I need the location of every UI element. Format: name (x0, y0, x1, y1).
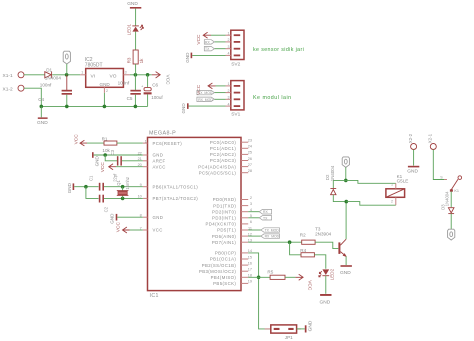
net flag TX to sensor (204, 47, 214, 52)
supply VCC arrow SV1 (196, 83, 216, 95)
svg-text:1: 1 (228, 82, 230, 86)
wire SV2 pin4 to GND (192, 54, 225, 56)
svg-text:1N4004: 1N4004 (45, 76, 62, 81)
junction R5 tap (257, 276, 261, 280)
capacitor C1 22pf (89, 173, 118, 191)
microcontroller IC1 MEGA8-P body (148, 131, 242, 300)
node VIN junction (65, 73, 69, 77)
svg-text:PD0(RXD): PD0(RXD) (213, 197, 237, 202)
svg-text:PD6(AIN0): PD6(AIN0) (212, 234, 237, 239)
pin 14 PB0(ICP) right (215, 249, 252, 255)
svg-text:1k: 1k (139, 58, 144, 64)
svg-text:AVCC: AVCC (153, 164, 166, 169)
wire X2-1 to switch pole (433, 150, 446, 180)
pin 2 SV2 (226, 38, 241, 43)
svg-text:X1-1: X1-1 (3, 73, 13, 79)
pin 19 PB5(SCK) right (213, 280, 252, 286)
diode D2 1N4004 (325, 165, 336, 194)
svg-text:VCC: VCC (165, 75, 171, 86)
svg-text:PB0(ICP): PB0(ICP) (215, 251, 237, 256)
svg-text:3: 3 (228, 45, 230, 49)
svg-text:GND: GND (181, 103, 186, 114)
connector X2-2 (408, 133, 417, 149)
pin 25 PC2(ADC2) right (210, 151, 252, 157)
pin 27 PC4(ADC4/SDA) right (198, 163, 252, 169)
wire X1-1 to D1 (24, 74, 45, 76)
wire VCC to R1 (87, 142, 104, 144)
svg-text:1: 1 (145, 139, 147, 143)
svg-text:GND: GND (100, 82, 111, 87)
svg-text:2: 2 (391, 199, 393, 203)
svg-text:PC3(ADC3): PC3(ADC3) (210, 158, 236, 163)
wire VCC to SV2 pin1 (211, 34, 226, 36)
svg-text:PB4(MISO): PB4(MISO) (211, 275, 237, 280)
pin 15 PB1(OC1A) right (210, 255, 252, 261)
svg-text:GND: GND (185, 52, 190, 63)
pin 2 PD0(RXD) right (213, 196, 252, 202)
junction IC2 gnd-rail (103, 105, 107, 109)
jumper JP1 (271, 325, 297, 340)
svg-text:G5LE: G5LE (397, 179, 409, 184)
junction crystal-xtal1 (121, 185, 125, 189)
pin 4 PD2(INT0) right (212, 208, 252, 214)
svg-text:1: 1 (81, 71, 83, 75)
svg-text:1N4004: 1N4004 (330, 165, 335, 181)
svg-text:PD5(T1): PD5(T1) (217, 228, 236, 233)
svg-text:GND: GND (110, 213, 115, 224)
svg-text:PC1(ADC1): PC1(ADC1) (210, 146, 236, 151)
svg-text:4: 4 (228, 52, 230, 56)
wire wirepad down to node A (345, 167, 347, 180)
junction xtal gnd (84, 185, 88, 189)
wire node A to D2 cathode (333, 180, 346, 188)
svg-text:C3: C3 (110, 149, 115, 155)
pin 22 GND left (138, 151, 164, 157)
svg-text:TX_MOD: TX_MOD (265, 228, 280, 232)
pin 1 SV2 (226, 31, 241, 36)
svg-text:Ke modul lain: Ke modul lain (253, 95, 292, 101)
connector X1-1 (3, 72, 25, 79)
wire X2-2 to GND (413, 150, 415, 166)
resistor R2 (300, 232, 315, 244)
pin 2 relay coil (391, 197, 396, 205)
junction VO-R3-C5 (134, 73, 138, 77)
capacitor C5 100nf (118, 75, 141, 107)
ground GND at JP1 rotated (305, 320, 314, 332)
junction C4-rail (65, 105, 69, 109)
svg-text:27: 27 (248, 163, 252, 167)
wire switch to D3 (450, 192, 452, 208)
svg-text:R2: R2 (300, 232, 306, 237)
relay K1 contact blade (450, 179, 459, 193)
wire SV1 pin2 to flag (214, 92, 225, 94)
svg-text:GND: GND (308, 320, 314, 331)
supply VCC arrow for reset pullup (74, 134, 88, 146)
svg-text:GND: GND (340, 270, 351, 276)
svg-text:2: 2 (228, 89, 230, 93)
svg-text:X2-1: X2-1 (428, 133, 433, 143)
wire R4 to LED2 (314, 255, 325, 269)
SECTION: mcu-right (248, 202, 352, 340)
connector X1-2 (3, 85, 25, 92)
svg-text:PB5(SCK): PB5(SCK) (213, 281, 236, 286)
svg-text:VCC: VCC (153, 228, 163, 233)
SECTION: mcu (138, 131, 252, 300)
svg-text:C2: C2 (104, 206, 109, 212)
pin 3 SV1 (226, 96, 241, 101)
svg-text:C4: C4 (38, 97, 44, 102)
wire X1-2 down to ground rail (24, 88, 41, 106)
capacitor C4 (38, 75, 72, 107)
wirepad JP input (63, 51, 70, 64)
SECTION: relay (325, 133, 462, 240)
pin 2 SV1 (226, 89, 241, 94)
pin 2 IC2 ground stub (104, 87, 108, 106)
svg-text:LED1: LED1 (126, 23, 131, 35)
crystal Q1 16MHz (116, 177, 130, 198)
wire VCC to pin7 (130, 229, 143, 231)
svg-text:X1-2: X1-2 (3, 86, 13, 92)
wire C2 to pin10 XTAL2 (104, 197, 143, 199)
wire junction down to C3 (105, 155, 117, 161)
net flag TX_MOD to module (197, 90, 215, 95)
svg-text:PB6(XTAL1/TOSC1): PB6(XTAL1/TOSC1) (153, 184, 199, 189)
svg-text:TX: TX (263, 216, 268, 220)
wire junction down to R4 (290, 242, 301, 255)
wire SV2 pin3 to flag (214, 48, 225, 50)
svg-text:2: 2 (228, 38, 230, 42)
svg-text:25: 25 (248, 151, 252, 155)
wire R2 to T3 base (315, 242, 338, 248)
svg-text:GND: GND (153, 215, 164, 220)
wire D2 anode to node B (333, 195, 346, 202)
svg-text:GND: GND (407, 169, 418, 175)
svg-text:RX_MOD: RX_MOD (198, 98, 213, 102)
svg-text:26: 26 (248, 157, 252, 161)
pin 10 PB7(XTAL2/TOSC2) left (138, 195, 199, 201)
svg-text:R4: R4 (300, 248, 306, 253)
resistor R1 10k (102, 137, 117, 154)
capacitor C3 (110, 149, 122, 165)
svg-text:RX_MOD: RX_MOD (265, 235, 280, 239)
svg-text:VCC: VCC (196, 34, 202, 45)
svg-text:AREF: AREF (153, 159, 166, 164)
svg-text:2N3904: 2N3904 (315, 231, 332, 236)
junction rail-left (40, 105, 44, 109)
wirepad relay supply (342, 157, 349, 168)
pin 26 PC3(ADC3) right (210, 157, 252, 163)
svg-text:100nf: 100nf (118, 81, 130, 86)
svg-text:GND: GND (153, 153, 164, 158)
pin 3 IC2 (123, 71, 129, 75)
svg-text:1: 1 (228, 31, 230, 35)
wire VCC arrow to pin20 AVCC (116, 166, 143, 168)
ground GND at pin22 rotated (92, 152, 99, 166)
svg-text:19: 19 (248, 280, 252, 284)
wire C3 to pin21 AREF (122, 160, 143, 162)
wire R5 to VCC (285, 276, 295, 278)
supply VCC arrow SV2 (196, 32, 211, 44)
pin 23 PC0(ADC0) right (210, 139, 252, 145)
svg-text:PD4(XCK/T0): PD4(XCK/T0) (206, 222, 237, 227)
pin 20 AVCC left (138, 163, 166, 169)
net flag RX_MOD on PD6 (261, 234, 280, 239)
svg-text:PC0(ADC0): PC0(ADC0) (210, 140, 236, 145)
svg-text:VCC: VCC (74, 134, 80, 145)
svg-text:C6: C6 (152, 83, 158, 88)
svg-text:R3: R3 (127, 57, 132, 63)
ground GND at pin8 rotated (110, 213, 118, 224)
svg-text:100uf: 100uf (151, 95, 163, 100)
pin 4 SV2 (226, 52, 241, 57)
wire pin4 to flag (248, 211, 259, 213)
pin 16 PB2(SS/OC1B) right (202, 261, 252, 267)
LED LED1 (126, 23, 143, 35)
resistor R3 1k (127, 50, 144, 64)
junction PD7 node (288, 240, 292, 244)
diode D1 1N4004 (45, 68, 62, 81)
junction crystal-xtal2 (121, 197, 125, 201)
wire node B to relay pin2 (346, 202, 396, 206)
wire pin13 PD7 to R2 (248, 241, 302, 243)
capacitor C6 100uf polarized (141, 75, 163, 107)
svg-text:GND: GND (127, 1, 138, 7)
ground GND under LED2 (320, 294, 332, 305)
svg-text:PB1(OC1A): PB1(OC1A) (210, 257, 236, 262)
svg-text:PB2(SS/OC1B): PB2(SS/OC1B) (202, 263, 237, 268)
svg-text:TX: TX (205, 47, 210, 51)
svg-text:23: 23 (248, 139, 252, 143)
wire D1 to IC2 VI (52, 74, 80, 76)
pin stubs JP1 (265, 328, 271, 330)
pin 5 PD3(INT1) right (212, 214, 252, 220)
svg-text:VCC: VCC (306, 280, 312, 291)
ground GND bottom-left (37, 106, 48, 126)
LED LED2 (319, 268, 335, 280)
svg-text:1: 1 (391, 182, 393, 186)
wire R1 to pin1 (117, 142, 143, 144)
resistor R4 (300, 248, 314, 257)
svg-text:IC1: IC1 (150, 293, 159, 299)
svg-text:2: 2 (250, 196, 252, 200)
pin 6 PD4(XCK/T0) right (206, 220, 252, 226)
wire SV1 pin3 to flag (214, 98, 225, 100)
pin 3 PD1(TXD) right (213, 202, 252, 208)
supply VCC arrow for AVCC (100, 162, 116, 173)
svg-text:RX: RX (205, 40, 210, 44)
connector X2-1 (428, 133, 437, 149)
net flag RX_MOD to module (197, 97, 215, 102)
pin 28 PC5(ADC5/SCL) right (199, 169, 252, 175)
pin 18 PB4(MISO) right (211, 274, 252, 280)
svg-text:28: 28 (248, 169, 252, 173)
svg-text:16: 16 (248, 261, 252, 265)
wire GND to LED1 (135, 9, 137, 26)
wire SV1 pin4 to GND (189, 105, 226, 107)
wire LED1 to R3 (135, 32, 137, 50)
pin 13 PD7(AIN1) right (212, 239, 252, 245)
svg-text:LED2: LED2 (329, 268, 334, 280)
pin 1 relay coil (391, 182, 396, 188)
pin 17 PB3(MOSI/OC2) right (199, 268, 252, 274)
ground GND under X2-2 (407, 166, 419, 175)
wire pin11 to flag (248, 229, 261, 231)
pin 8 GND left (140, 214, 164, 220)
svg-text:PC6(RESET): PC6(RESET) (153, 141, 183, 146)
relay K1 G5LE coil (386, 174, 408, 198)
wire T3 emitter to GND (345, 256, 347, 265)
pin 4 SV1 (226, 102, 241, 107)
supply VCC arrow right (295, 274, 312, 291)
pin 12 PD6(AIN0) right (212, 232, 252, 238)
wire R3 to VCC node (134, 64, 136, 75)
SECTION: power supply (3, 1, 171, 126)
wire D3 to wirepad (450, 214, 452, 229)
pin 24 PC1(ADC1) right (210, 145, 252, 151)
wire SV2 pin2 to flag (214, 41, 225, 43)
connector SV1 body (231, 81, 244, 118)
wire VCC to SV1 pin1 (216, 85, 226, 87)
wirepad output (448, 229, 455, 240)
svg-text:6: 6 (250, 220, 252, 224)
svg-text:VO: VO (110, 74, 117, 80)
svg-text:PC5(ADC5/SCL): PC5(ADC5/SCL) (199, 170, 237, 175)
svg-text:MEGA8-P: MEGA8-P (149, 131, 176, 137)
svg-text:VCC: VCC (100, 162, 106, 173)
pin 1 SV1 (226, 82, 241, 87)
ground rail wire (41, 105, 147, 107)
svg-text:SV2: SV2 (231, 61, 240, 67)
svg-text:VCC: VCC (116, 222, 122, 233)
wire node A to relay pin1 (346, 180, 396, 183)
wire gnd branch to C2 (86, 187, 99, 199)
ground GND SV1 rotated (181, 103, 188, 114)
SECTION: mcu-left (67, 134, 143, 233)
svg-text:C5: C5 (127, 96, 133, 101)
svg-text:TX_MOD: TX_MOD (198, 91, 213, 95)
svg-text:PC2(ADC2): PC2(ADC2) (210, 152, 236, 157)
wire junction to R5 (248, 276, 270, 278)
svg-text:PB7(XTAL2/TOSC2): PB7(XTAL2/TOSC2) (153, 196, 199, 201)
pin 21 AREF left (138, 157, 166, 163)
junction C5-rail (134, 105, 138, 109)
ground GND top for LED1 (127, 1, 141, 9)
wire pin12 to flag (248, 235, 261, 237)
wire VO output (130, 74, 152, 76)
junction gnd-C3 (103, 153, 107, 157)
ground GND crystal rotated (67, 182, 74, 193)
svg-text:JP1: JP1 (285, 335, 293, 340)
svg-text:D1: D1 (46, 68, 52, 73)
wire pin5 to flag (248, 217, 259, 219)
svg-text:SV1: SV1 (231, 112, 240, 118)
relay K1 contact fixed circle (458, 176, 462, 180)
transistor T3 2N3904 (315, 226, 347, 257)
svg-text:RX: RX (263, 210, 268, 214)
svg-text:3: 3 (228, 96, 230, 100)
svg-text:ke sensor sidik jari: ke sensor sidik jari (253, 47, 304, 53)
voltage regulator IC2 7805DT (85, 57, 124, 87)
SECTION: connectors (181, 30, 304, 117)
svg-text:PD1(TXD): PD1(TXD) (213, 203, 236, 208)
wire GND to pin22 (94, 154, 143, 156)
svg-text:3: 3 (125, 71, 127, 75)
junction VO-C6 (146, 73, 150, 77)
wire T3 collector up to relay node (345, 202, 347, 240)
svg-text:R1: R1 (102, 137, 108, 142)
svg-text:PB3(MOSI/OC2): PB3(MOSI/OC2) (199, 269, 236, 274)
svg-text:7805DT: 7805DT (85, 62, 103, 68)
pin 9 PB6(XTAL1/TOSC1) left (140, 183, 199, 189)
svg-text:4: 4 (228, 102, 230, 106)
pin 1 PC6(RESET) left (143, 139, 182, 145)
svg-text:16mhz: 16mhz (125, 177, 130, 190)
pin 7 VCC left (140, 226, 163, 232)
svg-text:24: 24 (248, 145, 252, 149)
svg-text:PD3(INT1): PD3(INT1) (212, 216, 236, 221)
ground GND at emitter (340, 265, 352, 276)
resistor R5 (267, 270, 285, 280)
svg-text:PD7(AIN1): PD7(AIN1) (212, 240, 237, 245)
net flag RX on PD2 (259, 209, 271, 214)
wire PB0 down to JP1 (248, 253, 271, 329)
svg-text:100nf: 100nf (40, 83, 52, 88)
svg-text:GND: GND (94, 156, 99, 167)
svg-text:PC4(ADC4/SDA): PC4(ADC4/SDA) (198, 164, 236, 169)
pin 1 IC2 (80, 71, 86, 75)
svg-text:VI: VI (91, 74, 96, 80)
svg-text:17: 17 (248, 268, 252, 272)
diode D3 1N4004 (440, 191, 454, 214)
net flag RX to sensor (204, 40, 214, 45)
wire GND to C1 (74, 186, 98, 188)
pin 11 PD5(T1) right (217, 226, 252, 232)
wire JP1 to GND (297, 328, 305, 330)
svg-text:K1: K1 (454, 189, 459, 193)
wire LED2 to GND (325, 276, 327, 294)
svg-text:GND: GND (37, 120, 48, 126)
svg-text:2: 2 (106, 89, 108, 93)
wire GND to pin8 (117, 216, 143, 218)
net flag TX on PD3 (259, 216, 271, 221)
ground GND SV2 rotated (185, 52, 192, 63)
supply VCC arrow at pin7 (116, 222, 130, 233)
pin 3 SV2 (226, 45, 241, 50)
net flag TX_MOD on PD5 (261, 228, 280, 233)
svg-text:GND: GND (320, 299, 331, 305)
node B junction (345, 200, 349, 204)
svg-text:X2-2: X2-2 (408, 133, 413, 143)
svg-text:3: 3 (250, 202, 252, 206)
svg-text:1N4004: 1N4004 (445, 191, 450, 206)
svg-text:GND: GND (67, 182, 72, 193)
capacitor C2 22pf (99, 195, 109, 213)
svg-text:15: 15 (248, 255, 252, 259)
svg-text:Q1: Q1 (116, 180, 121, 186)
wire wirepad to node (66, 64, 68, 75)
node A junction (344, 179, 348, 183)
connector SV2 body (231, 30, 244, 67)
supply VCC arrow output (152, 72, 171, 86)
relay K1 contact pole pin (440, 175, 447, 179)
wire C1 to pin9 XTAL1 (104, 186, 143, 188)
svg-text:PD2(INT0): PD2(INT0) (212, 209, 236, 214)
svg-text:C1: C1 (89, 175, 94, 181)
svg-text:R5: R5 (267, 270, 273, 275)
